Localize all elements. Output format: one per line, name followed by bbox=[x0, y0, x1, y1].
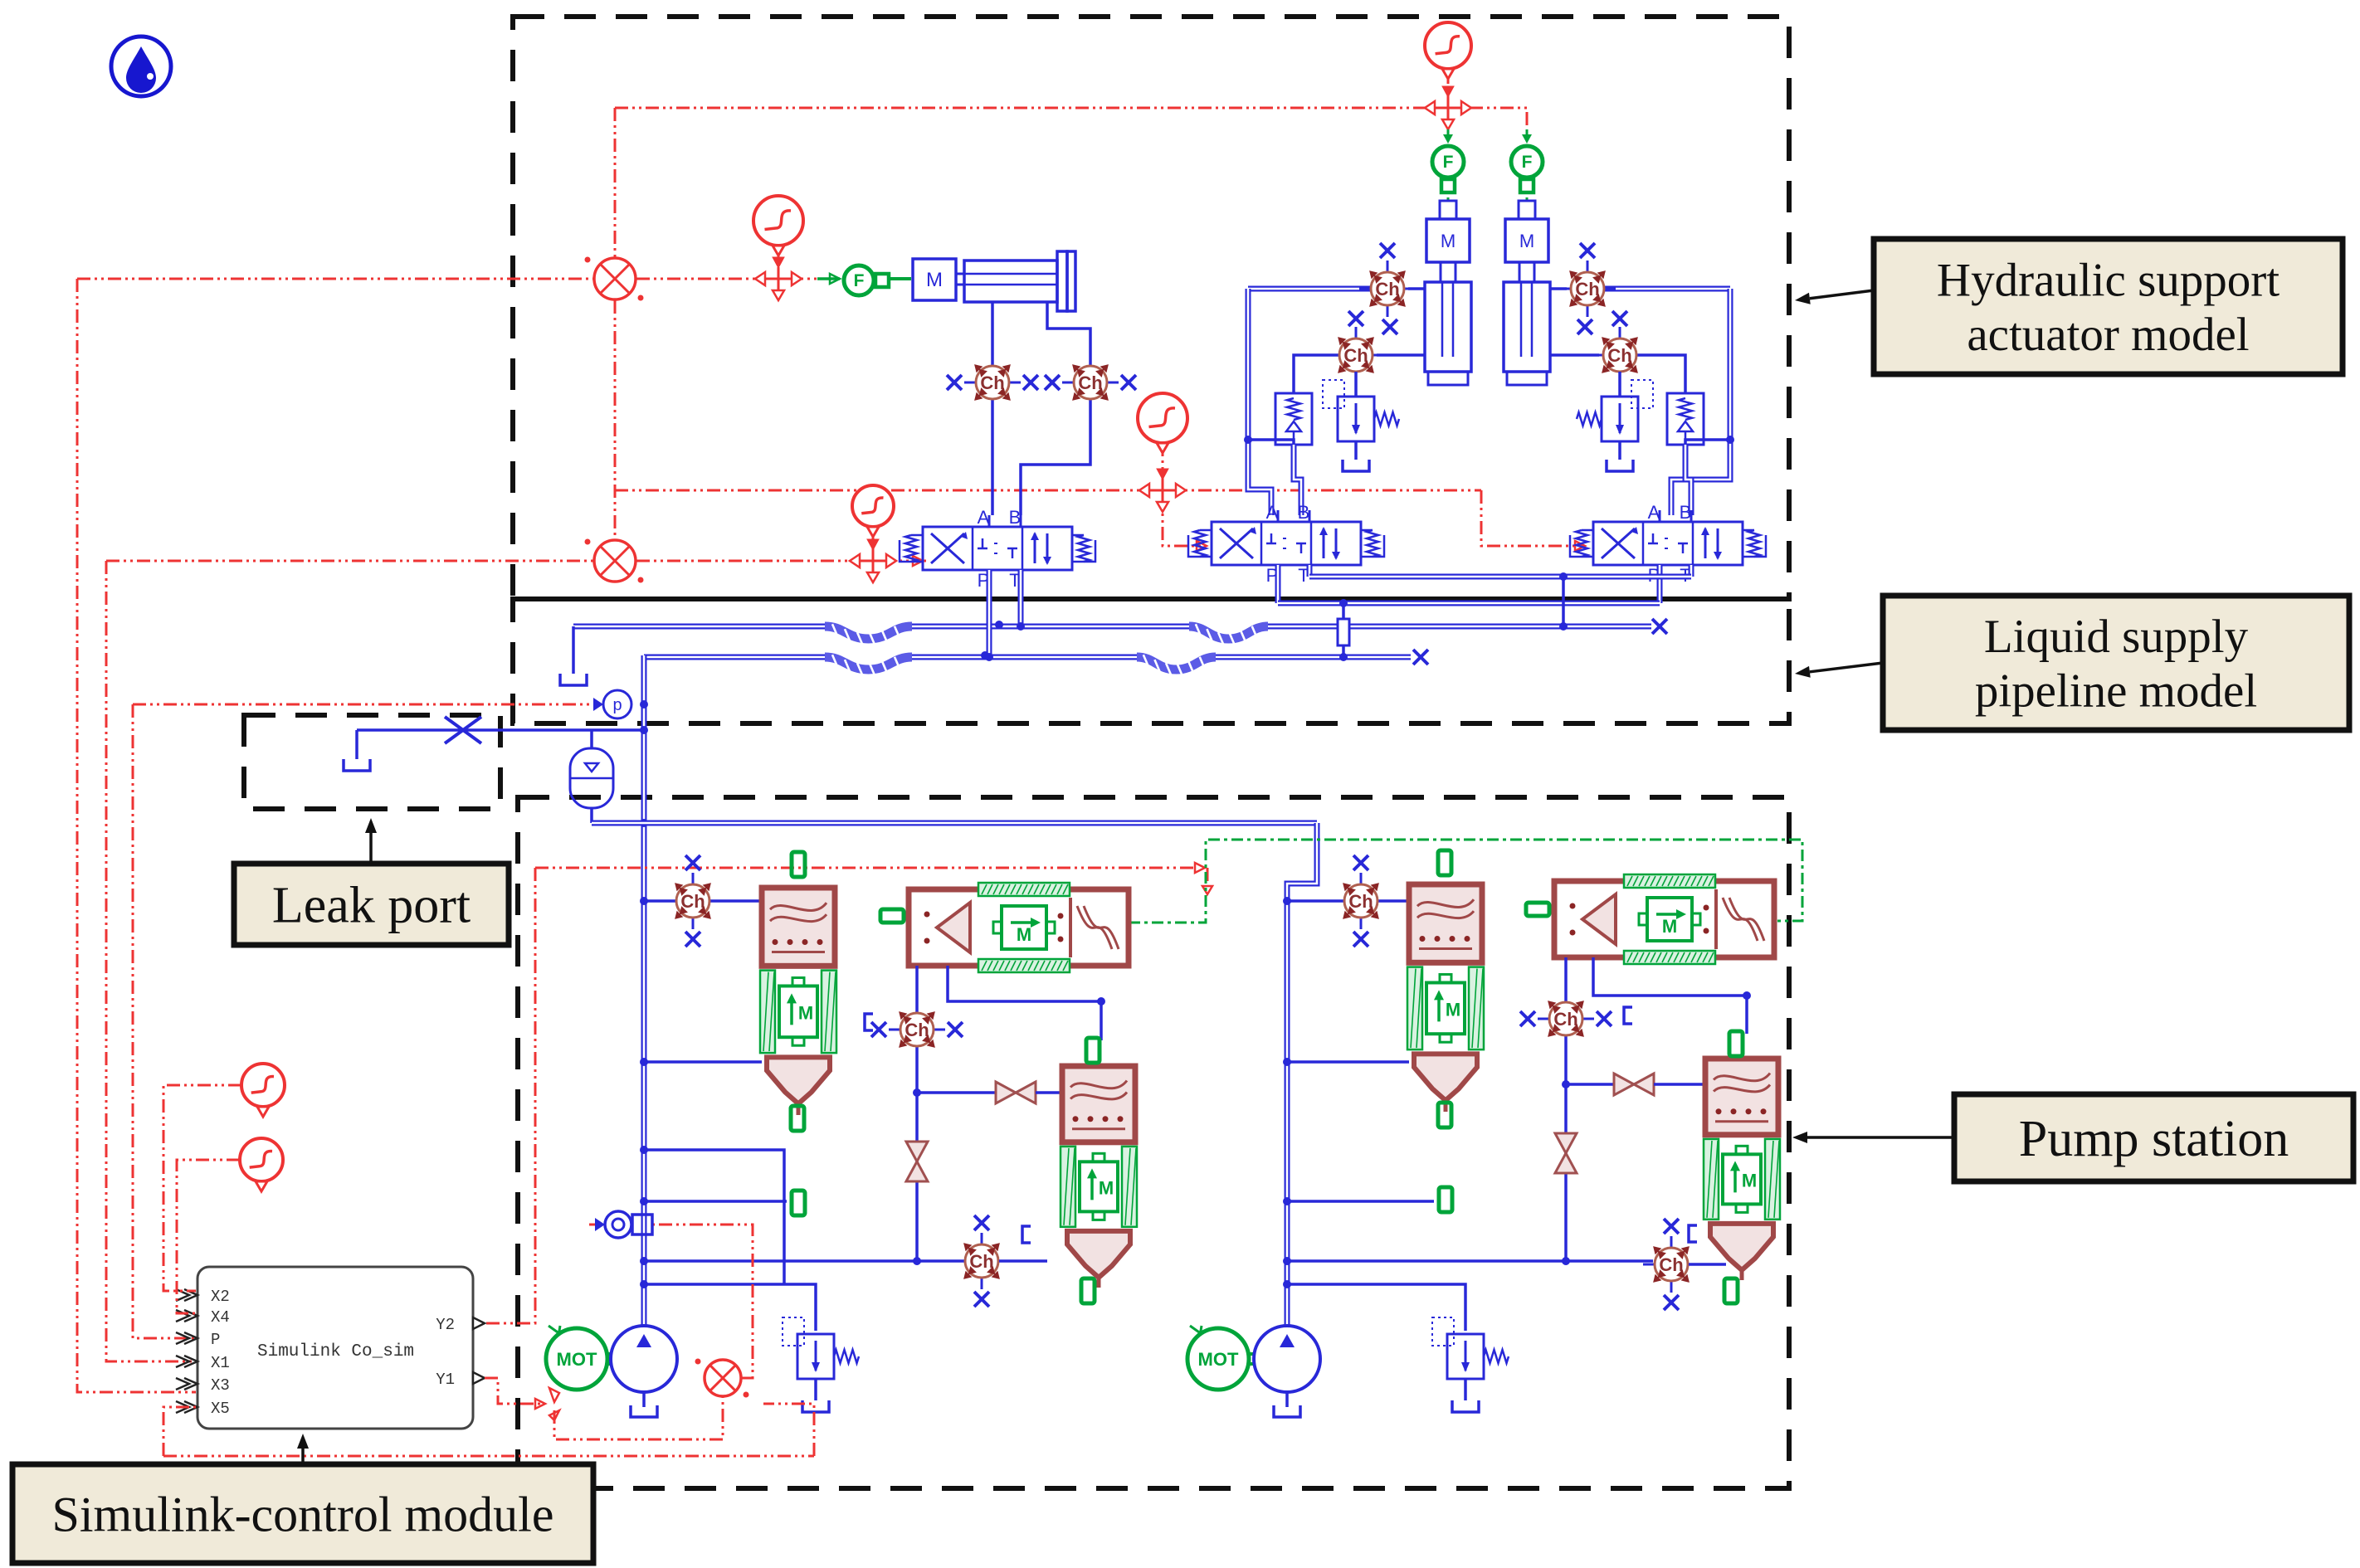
svg-text:Ch: Ch bbox=[1553, 1009, 1577, 1030]
svg-text:Ch: Ch bbox=[905, 1020, 929, 1040]
svg-text:Pump station: Pump station bbox=[2019, 1111, 2289, 1167]
svg-text:F: F bbox=[854, 271, 865, 290]
svg-text:Liquid supply: Liquid supply bbox=[1984, 611, 2249, 663]
svg-text:Ch: Ch bbox=[680, 891, 705, 912]
svg-text:Simulink-control module: Simulink-control module bbox=[52, 1488, 554, 1542]
svg-text:M: M bbox=[1017, 924, 1031, 945]
svg-text:B: B bbox=[1680, 502, 1692, 523]
svg-text:MOT: MOT bbox=[1198, 1349, 1239, 1370]
svg-text:Ch: Ch bbox=[1659, 1254, 1683, 1275]
svg-text:p: p bbox=[612, 696, 622, 714]
svg-text:M: M bbox=[1662, 916, 1677, 937]
svg-text:M: M bbox=[1446, 999, 1460, 1020]
svg-text:M: M bbox=[926, 269, 943, 291]
svg-text:X1: X1 bbox=[211, 1354, 230, 1372]
svg-text:A: A bbox=[1266, 502, 1279, 523]
svg-text:Y2: Y2 bbox=[436, 1316, 455, 1334]
svg-text:X3: X3 bbox=[211, 1376, 230, 1395]
svg-text:Ch: Ch bbox=[969, 1251, 993, 1272]
svg-text:actuator model: actuator model bbox=[1967, 309, 2249, 361]
svg-text:Y1: Y1 bbox=[436, 1371, 455, 1389]
svg-text:Ch: Ch bbox=[1348, 891, 1373, 912]
svg-text:M: M bbox=[1099, 1177, 1114, 1198]
svg-text:Hydraulic support: Hydraulic support bbox=[1937, 255, 2280, 307]
svg-text:Simulink Co_sim: Simulink Co_sim bbox=[257, 1342, 414, 1361]
svg-text:M: M bbox=[1742, 1170, 1757, 1191]
svg-text:pipeline model: pipeline model bbox=[1975, 665, 2257, 718]
svg-text:Ch: Ch bbox=[980, 373, 1004, 393]
svg-text:F: F bbox=[1522, 153, 1533, 172]
svg-text:Ch: Ch bbox=[1607, 345, 1631, 366]
svg-text:X5: X5 bbox=[211, 1400, 230, 1418]
svg-text:Ch: Ch bbox=[1575, 279, 1599, 299]
svg-text:Ch: Ch bbox=[1343, 345, 1368, 366]
svg-text:X4: X4 bbox=[211, 1308, 230, 1327]
svg-text:Ch: Ch bbox=[1078, 373, 1102, 393]
svg-text:A: A bbox=[978, 507, 990, 528]
svg-text:F: F bbox=[1443, 153, 1454, 172]
svg-text:A: A bbox=[1648, 502, 1660, 523]
svg-text:M: M bbox=[798, 1002, 813, 1023]
svg-text:MOT: MOT bbox=[557, 1349, 597, 1370]
svg-text:X2: X2 bbox=[211, 1288, 230, 1306]
svg-text:M: M bbox=[1441, 231, 1455, 251]
svg-text:B: B bbox=[1298, 502, 1310, 523]
svg-text:Ch: Ch bbox=[1375, 279, 1399, 299]
svg-text:Leak port: Leak port bbox=[272, 878, 471, 934]
svg-text:M: M bbox=[1519, 231, 1534, 251]
svg-text:P: P bbox=[211, 1331, 220, 1349]
svg-text:B: B bbox=[1009, 507, 1022, 528]
